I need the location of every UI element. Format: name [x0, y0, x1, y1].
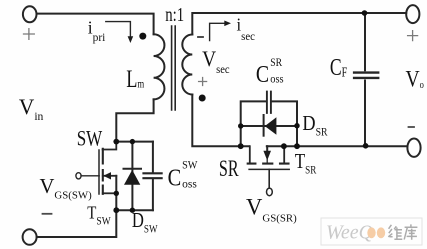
diode DSR cathode bar [263, 115, 265, 136]
terminal output positive [406, 5, 419, 23]
svg-text:C: C [168, 164, 182, 191]
svg-text:n:1: n:1 [165, 3, 184, 26]
svg-text:SW: SW [182, 159, 198, 172]
junction CF top [362, 10, 368, 16]
svg-text:SW: SW [77, 126, 103, 151]
wire SR output rail [267, 145, 408, 147]
wire primary bottom to SW drain [116, 99, 153, 141]
transformer T1 secondary winding [182, 35, 192, 95]
capacitor Coss-SW branch wire top [152, 142, 154, 172]
wire SW drain rail [116, 141, 153, 143]
svg-text:DSW: DSW [132, 209, 158, 236]
wire secondary bottom feed [192, 95, 249, 147]
arrow i_pri [106, 22, 131, 38]
svg-text:oss: oss [182, 179, 197, 191]
plus mark input [24, 29, 35, 40]
wire input return bottom rail [37, 210, 116, 237]
transistor Q1 SW body-source wire [115, 176, 117, 210]
wire SW source rail [116, 209, 153, 211]
transistor Q2 SR source stub [283, 146, 285, 163]
svg-text:VGS(SW): VGS(SW) [40, 174, 93, 201]
svg-text:WeeQ: WeeQ [326, 222, 374, 244]
transistor Q1 SW gate terminal circle [76, 173, 81, 179]
svg-text:VGS(SR): VGS(SR) [246, 194, 297, 224]
terminal input positive [23, 6, 37, 22]
watermark box WeeQoo [321, 218, 422, 245]
transistor Q2 SR body arrow tail [266, 159, 268, 163]
svg-text:Vin: Vin [19, 95, 44, 123]
junction SR source [281, 143, 287, 149]
transistor Q1 SW body arrow [103, 172, 111, 179]
capacitor Coss-SW branch wire bottom [152, 180, 154, 211]
diode DSW cathode bar [124, 168, 142, 170]
transistor Q1 SW source stub [103, 192, 117, 194]
svg-text:ipri: ipri [88, 18, 106, 45]
transistor Q1 SW drain stub [103, 142, 117, 150]
arrow i_sec [210, 23, 226, 40]
transistor Q2 SR body arrow [263, 151, 271, 161]
terminal output negative [407, 139, 420, 157]
plus mark Vsec [199, 78, 207, 86]
transistor Q2 SR drain stub [249, 146, 251, 163]
junction DSR rail right [294, 123, 299, 128]
junction DSW top [130, 139, 135, 144]
transistor Q1 SW gate lead [81, 175, 99, 177]
junction SR rail left [238, 143, 244, 149]
wire secondary top rail [192, 13, 406, 35]
svg-text:Vsec: Vsec [202, 48, 229, 76]
watermark text weiku glyphs [388, 224, 417, 239]
capacitor CF [354, 73, 378, 78]
transistor Q2 SR gate bar [249, 168, 289, 170]
diode DSW branch wire [131, 142, 133, 211]
svg-text:DSR: DSR [302, 112, 328, 139]
junction SR rail right [294, 143, 300, 149]
capacitor CF branch wire top [364, 13, 366, 70]
svg-text:TSW: TSW [87, 202, 110, 228]
terminal input negative [23, 229, 37, 245]
wire top rail primary [37, 14, 154, 35]
junction CF bottom [363, 143, 369, 149]
transformer T1 core [172, 26, 176, 110]
junction SW source rail left [113, 207, 119, 213]
svg-text:CF: CF [330, 53, 348, 81]
svg-text:Vo: Vo [406, 66, 425, 92]
junction DSW bottom [130, 208, 135, 213]
capacitor Coss-SR left wire [241, 101, 266, 146]
svg-text:isec: isec [237, 15, 256, 43]
node secondary polarity dot [199, 95, 206, 102]
capacitor Coss-SR right wire [272, 101, 298, 146]
transistor Q1 SW channel contact bars [102, 149, 104, 194]
junction SW source stub [114, 191, 119, 196]
junction DSR rail left [238, 123, 243, 128]
svg-text:TSR: TSR [295, 150, 317, 177]
junction SW drain left [113, 139, 119, 145]
capacitor Coss-SR plates [267, 92, 271, 113]
minus mark input [43, 213, 52, 215]
minus mark output [409, 126, 415, 128]
minus mark Vsec [198, 36, 203, 38]
diode DSW triangle [124, 170, 140, 185]
transformer T1 primary winding Lm [154, 34, 165, 99]
svg-text:C: C [256, 60, 269, 88]
svg-text:SR: SR [270, 57, 283, 69]
transistor Q2 SR body wire [266, 146, 268, 151]
wire DSR rail [241, 125, 297, 127]
diode DSR triangle [265, 117, 277, 134]
capacitor CF branch wire bottom [364, 81, 366, 147]
transistor Q2 SR gate lead [268, 169, 270, 188]
node primary polarity dot [139, 33, 146, 40]
transistor Q2 SR gate terminal circle [267, 188, 273, 196]
svg-text:oss: oss [270, 73, 283, 86]
plus mark output [408, 31, 418, 41]
svg-text:SR: SR [219, 156, 239, 181]
svg-text:Lm: Lm [126, 64, 144, 93]
transistor Q1 SW body stub [103, 175, 117, 177]
capacitor Coss-SW plates [144, 173, 162, 178]
transistor Q1 SW gate bar [98, 150, 100, 194]
transistor Q2 SR channel contact bars [248, 163, 289, 165]
